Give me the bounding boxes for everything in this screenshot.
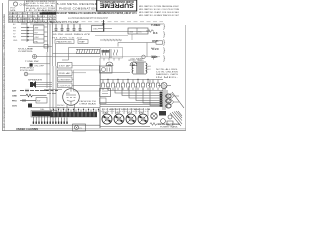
wire from J1	[28, 73, 50, 75]
T7 diagonal lead	[172, 92, 184, 108]
svg-text:TONE SW.: TONE SW.	[25, 61, 40, 63]
output tube V4 envelope	[63, 89, 80, 106]
wires from coupling boxes	[72, 65, 100, 79]
row 2 wire and resistor	[20, 94, 47, 97]
svg-text:TUNER: TUNER	[151, 23, 160, 27]
2nd IF transformer T5 block	[101, 48, 123, 59]
wire stub	[62, 59, 69, 61]
capacitor C10	[26, 89, 28, 92]
pin stubs under T5	[104, 58, 119, 61]
bias note text	[79, 100, 97, 106]
note text detector	[18, 48, 34, 53]
wire mid center	[53, 53, 101, 55]
tone switch S3 blob	[30, 63, 33, 66]
diode circle	[142, 55, 146, 59]
speaker SP1	[30, 81, 36, 88]
capacitor C8	[151, 56, 156, 60]
svg-text:ALL VOLTAGES MEASURED WITH NO: ALL VOLTAGES MEASURED WITH NO SIGNAL INP…	[68, 17, 108, 20]
svg-text:CATHODE 250: CATHODE 250	[79, 100, 97, 103]
phono input text	[20, 68, 35, 73]
border frame left	[3, 3, 5, 131]
plug P1 blob	[28, 104, 32, 108]
coupling box Z2	[58, 70, 73, 76]
rail extra left	[46, 52, 48, 88]
screen bus wire	[100, 72, 130, 74]
chassis bar (dark)	[50, 112, 97, 117]
dial scale hatched band	[76, 49, 100, 53]
svg-text:DATA: DATA	[10, 9, 16, 12]
rectifier box U2	[100, 89, 111, 97]
tube socket V1	[102, 112, 112, 125]
vertical wire from R2	[146, 43, 148, 57]
vertical rails left-center	[50, 66, 56, 88]
svg-text:SPEAKER: SPEAKER	[28, 79, 43, 82]
svg-text:SW: SW	[37, 101, 40, 103]
detector box U1	[100, 66, 113, 73]
svg-text:MARKED. CAPS: MARKED. CAPS	[156, 73, 179, 76]
svg-text:GND: GND	[12, 96, 17, 98]
power transformer T7 winding blobs	[166, 94, 171, 108]
filter box Z4	[100, 98, 107, 104]
pilot lamp DS1	[74, 125, 78, 129]
rectifier socket V5	[151, 113, 157, 119]
tube pin leads down	[67, 105, 75, 113]
top right notes block	[139, 5, 180, 17]
wire to filter	[148, 80, 150, 86]
socket strip divider	[99, 110, 101, 128]
caption box frame	[57, 0, 97, 11]
svg-text:OUTPUT TRANS.: OUTPUT TRANS.	[128, 59, 144, 62]
switch S1 position labels	[13, 24, 18, 42]
wire from Z3	[72, 85, 100, 87]
SUPREME logo box	[97, 0, 137, 11]
B+ bus wire	[100, 79, 163, 81]
svg-text:2ND AF: 2ND AF	[59, 72, 72, 75]
wire mixer row	[98, 28, 112, 30]
wire under trimmer row	[52, 31, 100, 33]
svg-text:UNDER CHASSIS: UNDER CHASSIS	[16, 128, 38, 131]
svg-text:MFD. PART NO. 35 ANT. COIL 14: MFD. PART NO. 35 ANT. COIL 1400 KC ADJ	[139, 11, 179, 14]
svg-text:KC: KC	[139, 31, 142, 33]
svg-text:OSC: OSC	[93, 29, 98, 31]
svg-text:MFD. PART NO. 25 TRIM. PADDER: MFD. PART NO. 25 TRIM. PADDER AL.455KC	[139, 5, 179, 8]
row 1 terminal parts	[20, 90, 48, 92]
coupling box Z1	[58, 63, 73, 69]
svg-text:FM: FM	[13, 37, 16, 39]
svg-text:PICKUP: PICKUP	[20, 70, 35, 72]
electrolytic C9	[161, 83, 167, 89]
vertical feed x100	[99, 58, 101, 128]
vertical wires center	[53, 44, 69, 66]
junction dots on bus	[107, 79, 148, 80]
potentiometer R3	[33, 55, 37, 59]
chassis bar texture ticks	[54, 112, 94, 116]
gang condenser dark bar	[32, 111, 52, 116]
chassis outline rect	[74, 70, 101, 91]
wire lower left to center	[62, 107, 100, 109]
filter choke blob	[159, 111, 166, 116]
long wire to IF	[100, 31, 150, 33]
V4 grid internals	[66, 89, 76, 106]
svg-text:PH.: PH.	[35, 41, 39, 43]
comb solder blobs	[33, 122, 68, 124]
T7 right stub wires	[173, 96, 179, 102]
wire upper center	[69, 47, 101, 49]
switch box S2	[36, 98, 47, 104]
gang condenser frame	[31, 111, 57, 118]
svg-text:OHM BIAS: OHM BIAS	[79, 103, 97, 106]
T7 secondary circles	[169, 94, 173, 98]
wire from R3	[37, 56, 53, 58]
svg-text:TRAP: TRAP	[79, 41, 85, 44]
wire AVC	[118, 43, 156, 47]
tube V2 base symbol	[106, 62, 113, 65]
pin ticks above chassis bar	[51, 109, 99, 112]
brace marks right margin	[163, 23, 166, 62]
tube socket V2	[114, 113, 124, 125]
tube V3 base symbol	[130, 62, 137, 65]
svg-text:ANT: ANT	[12, 90, 17, 93]
wire detector output	[100, 56, 160, 58]
staircase corner wires	[108, 86, 163, 106]
heater wiring verticals into sockets	[103, 108, 148, 116]
terminal strip line	[30, 124, 100, 126]
wire with hatching (shield)	[100, 39, 122, 41]
junction node blob	[102, 23, 104, 25]
title block header text	[10, 0, 56, 12]
svg-text:115V: 115V	[12, 106, 18, 108]
resistor R4 box	[156, 41, 163, 44]
svg-text:POWER TRANS.: POWER TRANS.	[160, 125, 178, 128]
svg-text:AVC: AVC	[151, 47, 156, 50]
oscillator coil T1 box	[92, 26, 105, 32]
svg-text:CONTROL: CONTROL	[18, 51, 34, 53]
switch tap dots	[27, 27, 29, 41]
title block dark cell	[40, 12, 56, 14]
capacitor C7	[44, 45, 48, 49]
svg-text:DRIVER: DRIVER	[59, 80, 72, 82]
trimmer capacitor row C1-C5	[55, 24, 82, 32]
tube socket V4s	[138, 113, 148, 125]
trap box T3	[78, 40, 88, 44]
band switch S1 wafer	[21, 23, 27, 42]
svg-text:RADIO DIAGRAMS MANUAL: RADIO DIAGRAMS MANUAL	[99, 0, 133, 4]
grid stopper parts	[46, 90, 58, 92]
svg-text:ON-OFF: ON-OFF	[34, 65, 45, 67]
svg-text:IN MFD.: IN MFD.	[156, 77, 179, 79]
wire L1 to ladder	[44, 27, 48, 41]
svg-text:MFD. PART NO. 40 WAVE TRAP 4: MFD. PART NO. 40 WAVE TRAP 455 KC SET	[139, 14, 180, 17]
svg-text:OUTPUT: OUTPUT	[59, 86, 72, 88]
phono jack J1	[24, 72, 28, 76]
coupling box Z5	[58, 83, 73, 88]
padder box T2	[55, 40, 74, 44]
wire under dial scale	[53, 56, 101, 58]
svg-text:R.F.: R.F.	[35, 32, 39, 34]
svg-text:MEASURED FROM SOCKET TERMINALS: MEASURED FROM SOCKET TERMINALS TO CHASSI…	[42, 11, 137, 15]
pilot light box	[73, 124, 86, 131]
note text block right	[156, 68, 179, 79]
svg-text:MFD. PART NO. 30 OSC. COIL 17: MFD. PART NO. 30 OSC. COIL 1720 KC TRIM	[139, 8, 179, 11]
socket label row	[101, 110, 149, 112]
svg-text:NOTE: ALL RES.: NOTE: ALL RES.	[156, 68, 179, 71]
wire volume control row	[28, 46, 52, 48]
wire tone switch to rails	[33, 63, 50, 65]
title block cell text rows	[9, 12, 55, 23]
svg-text:PHO: PHO	[12, 101, 17, 103]
grid return wire	[95, 35, 128, 37]
terminal comb under bar	[33, 116, 67, 124]
title block table	[9, 1, 57, 23]
output transformer T6	[132, 62, 147, 74]
svg-text:R1 47K C6 .02: R1 47K C6 .02	[52, 37, 84, 39]
tick blob heads above bar	[53, 109, 99, 110]
wire row1 to rails	[44, 89, 62, 91]
speaker wires	[36, 83, 52, 87]
wire from P1	[32, 107, 62, 109]
border frame bottom	[3, 129, 187, 131]
right cluster small parts	[161, 111, 182, 126]
resistor under cluster	[150, 123, 162, 126]
vertical feed wire to mixer	[103, 20, 105, 32]
svg-text:SW: SW	[13, 28, 16, 30]
svg-text:PHONO COMBINATION: PHONO COMBINATION	[59, 6, 97, 10]
antenna coil L1 box	[34, 25, 45, 43]
svg-text:MOST-OFTEN-NEEDED 1947 RADIO D: MOST-OFTEN-NEEDED 1947 RADIO DIAGRAMS AN…	[2, 14, 6, 128]
border frame right	[185, 25, 187, 130]
resistor R2	[146, 30, 154, 33]
vertical rails continue	[50, 88, 56, 110]
coupling box Z3	[58, 77, 73, 82]
bypass drops along bus	[102, 80, 160, 91]
svg-text:OSC: OSC	[35, 37, 40, 39]
title block stamp circle	[13, 2, 17, 6]
svg-text:1ST AF: 1ST AF	[59, 65, 72, 68]
box lead down	[131, 34, 133, 40]
svg-text:GND: GND	[13, 40, 18, 42]
svg-text:R.F.: R.F.	[153, 31, 158, 35]
loop antenna ladder wires	[48, 23, 53, 67]
lower horizontal wires	[100, 103, 163, 107]
tube socket V3	[126, 113, 136, 125]
top wire bus	[30, 23, 163, 25]
terminal blobs at wire ends	[160, 92, 163, 107]
row 3 wire	[20, 100, 36, 102]
svg-text:PADDER 455: PADDER 455	[57, 41, 73, 44]
socket row bottom wire	[100, 126, 150, 128]
right margin labels	[151, 23, 160, 59]
power transformer T7 core	[163, 88, 167, 110]
IF transformer T4 box	[128, 28, 148, 34]
svg-text:.05 250 .0001 1MEG 47K: .05 250 .0001 1MEG 47K	[52, 34, 91, 36]
svg-text:LOOP ANT. BAND SW.: LOOP ANT. BAND SW.	[18, 21, 49, 24]
svg-text:V.C.: V.C.	[148, 69, 152, 71]
